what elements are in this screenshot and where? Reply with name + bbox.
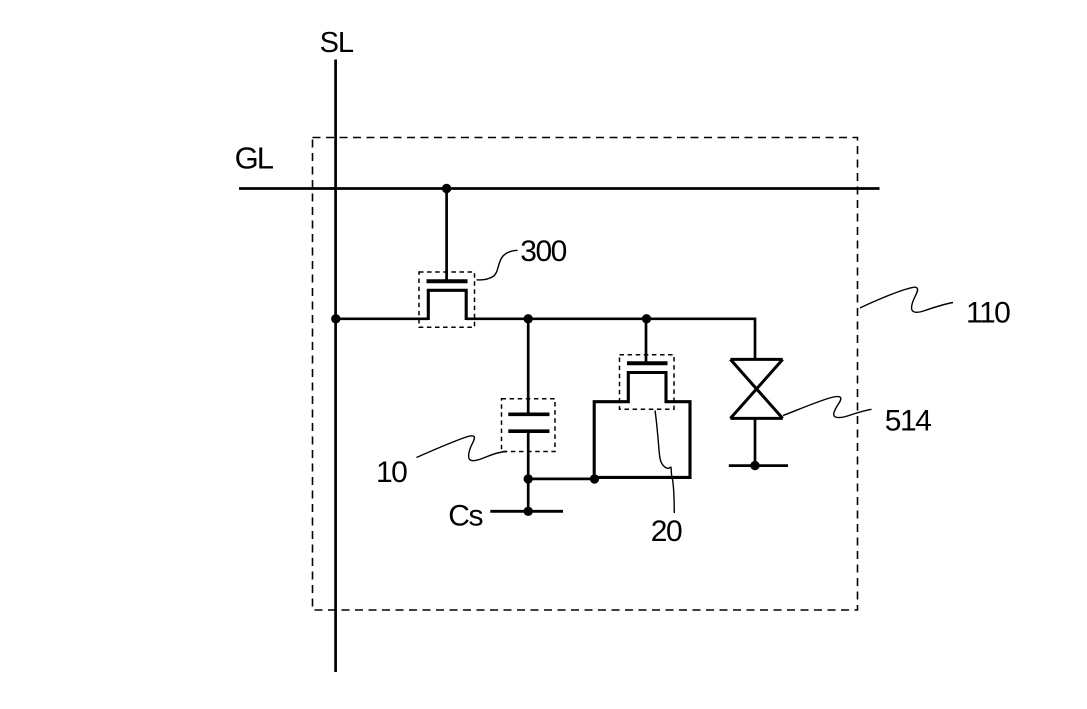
svg-text:110: 110 <box>966 297 1010 330</box>
svg-text:300: 300 <box>520 235 566 268</box>
svg-text:GL: GL <box>235 140 274 175</box>
svg-text:10: 10 <box>376 456 407 489</box>
svg-text:20: 20 <box>651 515 682 548</box>
svg-text:SL: SL <box>320 27 354 59</box>
svg-text:514: 514 <box>885 404 931 437</box>
svg-text:Cs: Cs <box>448 500 482 533</box>
